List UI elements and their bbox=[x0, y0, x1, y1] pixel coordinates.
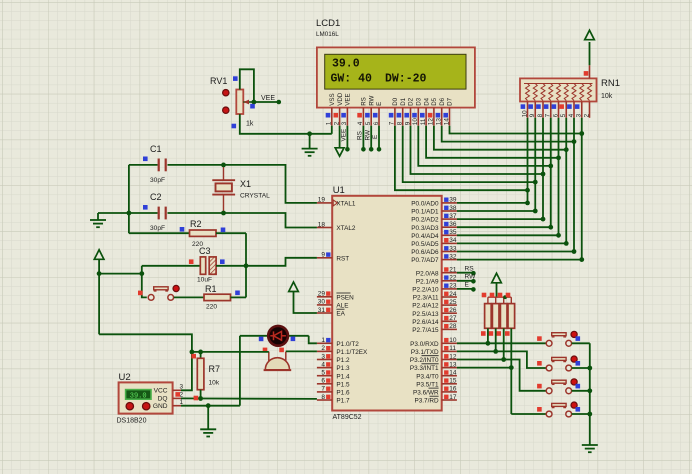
mcu U1 part number bbox=[333, 414, 362, 421]
svg-text:P2.1/A9: P2.1/A9 bbox=[416, 278, 439, 285]
svg-text:36: 36 bbox=[449, 221, 457, 228]
svg-text:30pF: 30pF bbox=[150, 225, 165, 232]
node R7 bottom junction bbox=[194, 396, 203, 401]
svg-text:3: 3 bbox=[576, 113, 583, 117]
LCD pin 13 D6 bbox=[436, 97, 446, 125]
wire P2.2 E bbox=[457, 282, 476, 292]
svg-text:34: 34 bbox=[449, 237, 457, 244]
wire VCC left vertical bbox=[98, 259, 100, 334]
U1 pin 21 P2.0/A8 bbox=[416, 267, 457, 278]
svg-text:220: 220 bbox=[206, 304, 217, 311]
svg-text:DS18B20: DS18B20 bbox=[117, 418, 147, 425]
LCD text line1 bbox=[332, 58, 360, 71]
svg-text:7: 7 bbox=[545, 113, 552, 117]
svg-text:RS: RS bbox=[361, 97, 368, 106]
svg-text:1: 1 bbox=[326, 121, 333, 125]
speaker LS1 bbox=[263, 348, 292, 371]
svg-text:VEE: VEE bbox=[345, 93, 352, 105]
wire wiper to VEE terminal bbox=[254, 101, 279, 103]
svg-text:8: 8 bbox=[537, 113, 544, 117]
U1 pin 17 P3.7/RD bbox=[414, 394, 456, 405]
svg-text:VEE: VEE bbox=[341, 129, 348, 142]
wire LCD D7 to net column bbox=[450, 126, 585, 136]
svg-text:P0.2/AD2: P0.2/AD2 bbox=[411, 217, 439, 224]
svg-text:8: 8 bbox=[321, 394, 325, 401]
push button key2 bbox=[537, 356, 580, 371]
U1 pin 9 RST bbox=[317, 252, 349, 263]
svg-text:P1.7: P1.7 bbox=[336, 398, 350, 405]
svg-text:1: 1 bbox=[321, 337, 325, 344]
svg-text:R7: R7 bbox=[209, 364, 221, 374]
pull-up resistor 3 bbox=[500, 304, 507, 329]
wire RN1 pin1 to power bbox=[589, 42, 591, 65]
wire LCD E down bbox=[377, 126, 382, 152]
U1 pin 15 P3.5/T1 bbox=[416, 378, 457, 389]
wire LCD VDD down bbox=[339, 126, 341, 148]
svg-text:R2: R2 bbox=[190, 219, 202, 229]
mcu U1 label bbox=[333, 185, 345, 196]
svg-text:C2: C2 bbox=[150, 192, 162, 202]
svg-text:P3.7/RD: P3.7/RD bbox=[414, 398, 439, 405]
LCD pin 14 D7 bbox=[443, 97, 453, 125]
svg-text:19: 19 bbox=[318, 197, 326, 204]
node RV1 wiper junction bbox=[252, 100, 257, 105]
wire P3.0 to key1 bbox=[457, 342, 546, 344]
wire VCC bottom run bbox=[99, 334, 192, 390]
svg-text:P0.6/AD6: P0.6/AD6 bbox=[411, 249, 439, 256]
resistor pack bottom squares bbox=[481, 331, 510, 336]
ground crystal net bbox=[90, 213, 106, 227]
RN1 pin 2 bbox=[584, 102, 591, 118]
U1 pin 3 P1.2 bbox=[317, 353, 350, 364]
svg-text:EA: EA bbox=[336, 311, 345, 318]
capacitor C2 bbox=[129, 205, 224, 219]
wire net column P0.4 down to U1 bbox=[457, 118, 561, 238]
svg-text:5: 5 bbox=[560, 113, 567, 117]
svg-text:8: 8 bbox=[397, 121, 404, 125]
U1 pin 5 P1.4 bbox=[317, 370, 350, 381]
capacitor C3 bbox=[142, 257, 246, 274]
svg-text:11: 11 bbox=[449, 345, 456, 352]
U1 pin 10 P3.0/RXD bbox=[410, 337, 457, 348]
svg-text:U2: U2 bbox=[119, 372, 131, 383]
U1 pin 35 P0.4/AD4 bbox=[411, 229, 457, 240]
U1 pin 30 ALE bbox=[317, 299, 349, 310]
wire pull-up 2 down bbox=[493, 328, 498, 354]
power terminal left VCC bbox=[94, 250, 104, 259]
wire LCD D3 to net column bbox=[418, 126, 553, 169]
wire LCD D0 to net column bbox=[395, 126, 530, 193]
wire key ground bus bbox=[589, 343, 591, 445]
node VCC-C3 junction bbox=[97, 271, 102, 276]
svg-text:ALE: ALE bbox=[336, 303, 348, 310]
svg-text:RW: RW bbox=[364, 129, 371, 140]
svg-text:14: 14 bbox=[449, 370, 457, 377]
svg-text:10k: 10k bbox=[601, 93, 613, 100]
wire net column P0.1 down to U1 bbox=[457, 118, 538, 214]
sensor U2 body bbox=[119, 382, 173, 413]
svg-text:6: 6 bbox=[553, 113, 560, 117]
push button key4 bbox=[537, 402, 580, 417]
svg-text:AT89C52: AT89C52 bbox=[333, 414, 362, 421]
power terminal VDD (down arrow) bbox=[335, 148, 344, 156]
U1 pin 34 P0.5/AD5 bbox=[411, 237, 457, 248]
U1 pin 36 P0.3/AD3 bbox=[411, 221, 457, 232]
wire DQ line to P1.7 bbox=[181, 397, 317, 400]
svg-text:15: 15 bbox=[449, 378, 457, 385]
resistor R1 bbox=[204, 291, 246, 301]
RN1 pin 6 bbox=[552, 102, 560, 118]
wire C1-C2 left vertical bbox=[128, 165, 130, 233]
U1 pin 16 P3.6/WR bbox=[413, 386, 457, 397]
svg-text:VCC: VCC bbox=[154, 388, 168, 395]
svg-text:D0: D0 bbox=[392, 97, 399, 105]
svg-text:6: 6 bbox=[373, 121, 380, 125]
U1 pin 29 PSEN bbox=[317, 291, 354, 302]
svg-text:3: 3 bbox=[341, 121, 348, 125]
wire LCD RW down bbox=[369, 126, 374, 152]
svg-text:39.0: 39.0 bbox=[332, 58, 360, 71]
resistor network RN1 label bbox=[601, 78, 620, 100]
U2 DQ state square bbox=[175, 392, 180, 397]
wire C1 net to XTAL1 bbox=[224, 165, 317, 203]
wire VCC branch to R7/speaker bbox=[192, 351, 269, 353]
node U2 gnd junction bbox=[206, 403, 211, 408]
svg-text:26: 26 bbox=[449, 307, 457, 314]
node bus j4 bbox=[587, 412, 592, 417]
U1 XTAL1 pin marker bbox=[333, 200, 337, 206]
svg-text:VEE: VEE bbox=[261, 95, 275, 102]
svg-text:P3.2/INT0: P3.2/INT0 bbox=[410, 357, 439, 364]
mcu U1 body bbox=[332, 196, 442, 411]
svg-text:X1: X1 bbox=[240, 179, 251, 189]
svg-text:P1.0/T2: P1.0/T2 bbox=[336, 341, 359, 348]
svg-text:7: 7 bbox=[389, 121, 396, 125]
wire RV1 bottom to VSS bbox=[240, 114, 332, 134]
svg-text:D3: D3 bbox=[416, 97, 423, 105]
ground key bus bbox=[582, 445, 598, 452]
node crystal bottom bbox=[221, 211, 226, 216]
svg-text:12: 12 bbox=[449, 353, 457, 360]
capacitor C3 label bbox=[197, 246, 212, 284]
wire P2.1 RW bbox=[457, 274, 476, 284]
svg-text:28: 28 bbox=[449, 323, 457, 330]
svg-text:23: 23 bbox=[449, 283, 457, 290]
wire LCD D2 to net column bbox=[411, 126, 546, 177]
U1 pin 23 P2.2/A10 bbox=[412, 283, 457, 294]
svg-text:D1: D1 bbox=[400, 97, 407, 105]
svg-text:LM016L: LM016L bbox=[316, 31, 339, 38]
pull-up resistor 2 bbox=[492, 304, 499, 329]
svg-text:P0.1/AD1: P0.1/AD1 bbox=[411, 209, 439, 216]
resistor R1 label bbox=[205, 284, 217, 311]
wire R1 up to RST net bbox=[245, 266, 247, 298]
svg-text:E: E bbox=[376, 102, 383, 106]
wire branch down to button bbox=[142, 274, 147, 298]
wire LCD D6 to net column bbox=[442, 126, 577, 144]
RN1 pin 1 stub bbox=[584, 65, 590, 78]
svg-text:2: 2 bbox=[321, 345, 325, 352]
wire key2 to bus bbox=[572, 367, 590, 369]
svg-text:11: 11 bbox=[420, 118, 427, 125]
svg-text:LCD1: LCD1 bbox=[316, 18, 340, 29]
wire speaker right to P1.1 bbox=[286, 350, 317, 352]
svg-text:9: 9 bbox=[404, 121, 411, 125]
U1 pin 6 P1.5 bbox=[317, 378, 350, 389]
wire net column P0.0 down to U1 bbox=[457, 118, 530, 206]
wire net column P0.6 down to U1 bbox=[457, 118, 576, 254]
svg-text:5: 5 bbox=[321, 370, 325, 377]
svg-text:2: 2 bbox=[333, 121, 340, 125]
LCD pin 6 E bbox=[373, 102, 383, 126]
svg-text:30: 30 bbox=[318, 299, 326, 306]
svg-text:9: 9 bbox=[529, 113, 536, 117]
wire C2 net to XTAL2 bbox=[224, 213, 317, 228]
wire LCD D5 to net column bbox=[434, 126, 569, 152]
svg-text:38: 38 bbox=[449, 205, 457, 212]
wire pull-up 4 down bbox=[509, 328, 514, 370]
svg-text:P0.0/AD0: P0.0/AD0 bbox=[411, 201, 439, 208]
svg-text:VDD: VDD bbox=[337, 92, 344, 106]
svg-text:CRYSTAL: CRYSTAL bbox=[240, 193, 270, 200]
LCD LCD1 screen bbox=[325, 54, 466, 89]
svg-text:31: 31 bbox=[318, 307, 326, 314]
node crystal top bbox=[221, 163, 226, 168]
svg-text:1k: 1k bbox=[246, 121, 254, 128]
wire P3.1 to key2 bbox=[457, 351, 546, 368]
LCD pin 9 D2 bbox=[404, 97, 414, 125]
LCD pin 4 RS bbox=[357, 97, 367, 126]
LCD pin 11 D4 bbox=[420, 97, 430, 125]
U1 pin 11 P3.1/TXD bbox=[411, 345, 457, 356]
label VEE rotated bbox=[341, 129, 348, 142]
LCD pin 5 RW bbox=[365, 95, 375, 125]
svg-text:29: 29 bbox=[318, 291, 326, 298]
svg-text:17: 17 bbox=[449, 394, 457, 401]
svg-text:XTAL2: XTAL2 bbox=[336, 225, 356, 232]
wire RST net to RST pin bbox=[246, 258, 317, 266]
push button reset bbox=[138, 285, 179, 300]
svg-text:4: 4 bbox=[568, 113, 575, 117]
svg-text:P2.6/A14: P2.6/A14 bbox=[412, 319, 439, 326]
node ground junction A bbox=[307, 131, 312, 136]
svg-text:2: 2 bbox=[584, 113, 591, 117]
svg-text:39.0: 39.0 bbox=[130, 393, 147, 401]
resistor R2 label bbox=[190, 219, 203, 248]
U1 pin 24 P2.3/A11 bbox=[413, 291, 457, 302]
svg-text:P1.4: P1.4 bbox=[336, 373, 350, 380]
svg-text:P3.5/T1: P3.5/T1 bbox=[416, 381, 439, 388]
label E rotated bbox=[372, 135, 379, 139]
U1 pin 22 P2.1/A9 bbox=[416, 275, 457, 286]
svg-text:24: 24 bbox=[449, 291, 457, 298]
svg-text:VSS: VSS bbox=[329, 93, 336, 105]
svg-text:P3.4/T0: P3.4/T0 bbox=[416, 373, 439, 380]
RN1 pin 9 bbox=[528, 102, 536, 118]
svg-text:P2.3/A11: P2.3/A11 bbox=[413, 295, 439, 302]
wire LCD RS down bbox=[361, 126, 366, 152]
RN1 internal resistors bbox=[524, 84, 593, 101]
svg-text:P0.3/AD3: P0.3/AD3 bbox=[411, 225, 439, 232]
svg-text:4: 4 bbox=[357, 121, 364, 125]
svg-text:U1: U1 bbox=[333, 185, 345, 196]
U1 pin 14 P3.4/T0 bbox=[416, 370, 457, 381]
power terminal EA bbox=[289, 282, 299, 292]
svg-text:C1: C1 bbox=[150, 144, 162, 154]
svg-text:P0.5/AD5: P0.5/AD5 bbox=[411, 241, 439, 248]
U1 pin 18 XTAL2 bbox=[317, 221, 356, 232]
svg-text:5: 5 bbox=[365, 121, 372, 125]
svg-text:GND: GND bbox=[153, 403, 168, 410]
resistor R7 bbox=[191, 352, 204, 399]
wire led to P1.0 bbox=[309, 336, 317, 344]
sensor U2 buttons bbox=[126, 403, 150, 410]
wire key3 to bus bbox=[572, 390, 590, 392]
svg-text:P2.7/A15: P2.7/A15 bbox=[412, 327, 439, 334]
U2 pin 3 VCC bbox=[154, 384, 184, 395]
svg-text:XTAL1: XTAL1 bbox=[336, 201, 356, 208]
svg-text:14: 14 bbox=[443, 118, 450, 126]
U1 pin 2 P1.1/T2EX bbox=[317, 345, 368, 356]
U2 pin 1 GND bbox=[153, 399, 184, 410]
svg-text:D2: D2 bbox=[408, 97, 415, 105]
svg-text:10uF: 10uF bbox=[197, 277, 212, 284]
node C2 left junction bbox=[126, 211, 131, 216]
crystal X1 label bbox=[240, 179, 270, 200]
label RS rotated bbox=[357, 131, 364, 140]
svg-text:P2.0/A8: P2.0/A8 bbox=[416, 270, 439, 277]
svg-text:13: 13 bbox=[436, 118, 443, 126]
svg-text:RW: RW bbox=[368, 95, 375, 105]
svg-text:RST: RST bbox=[336, 255, 349, 262]
U1 pin 27 P2.6/A14 bbox=[412, 315, 457, 326]
svg-text:7: 7 bbox=[321, 386, 325, 393]
terminal VEE bbox=[261, 95, 281, 104]
wire P3.2 to key3 bbox=[457, 360, 546, 391]
svg-text:D6: D6 bbox=[439, 97, 446, 105]
U1 pin 38 P0.1/AD1 bbox=[411, 205, 457, 216]
svg-text:6: 6 bbox=[321, 378, 325, 385]
LCD pin 8 D1 bbox=[397, 97, 407, 125]
node RST net junction bbox=[244, 263, 249, 268]
svg-text:3: 3 bbox=[321, 353, 325, 360]
svg-text:RV1: RV1 bbox=[210, 76, 227, 86]
U1 pin 1 P1.0/T2 bbox=[317, 337, 359, 348]
svg-text:R1: R1 bbox=[205, 284, 217, 294]
svg-text:27: 27 bbox=[449, 315, 457, 322]
svg-text:D7: D7 bbox=[447, 97, 454, 105]
svg-text:30pF: 30pF bbox=[150, 177, 165, 184]
svg-text:C3: C3 bbox=[199, 246, 211, 256]
svg-text:E: E bbox=[465, 282, 470, 289]
svg-text:P3.3/INT1: P3.3/INT1 bbox=[410, 365, 439, 372]
U1 pin 32 P0.7/AD7 bbox=[411, 253, 457, 264]
power terminal resistor pack bbox=[492, 273, 502, 297]
wire branch up to C3 bbox=[141, 266, 143, 274]
capacitor C2 label bbox=[150, 192, 165, 232]
svg-text:10k: 10k bbox=[209, 380, 220, 387]
RN1 pin 10 bbox=[521, 102, 529, 118]
pot RV1 interactive buttons bbox=[223, 90, 229, 114]
LCD pin 10 D3 bbox=[412, 97, 422, 125]
svg-text:RN1: RN1 bbox=[601, 78, 620, 89]
svg-text:22: 22 bbox=[449, 275, 457, 282]
svg-text:RW: RW bbox=[465, 274, 477, 281]
svg-text:P1.1/T2EX: P1.1/T2EX bbox=[336, 349, 368, 356]
wire GND line bbox=[181, 405, 240, 407]
pull-up resistor 4 bbox=[508, 304, 515, 329]
wire led left down to gnd bbox=[239, 336, 241, 406]
svg-text:P1.2: P1.2 bbox=[336, 357, 350, 364]
wire C2 to ground spur bbox=[98, 212, 129, 214]
U1 pin 8 P1.7 bbox=[317, 394, 350, 405]
wire key1 to bus bbox=[572, 342, 590, 344]
wire button to R1 bbox=[174, 296, 204, 298]
wire VCC to C3/button branch bbox=[99, 273, 142, 275]
U1 pin 13 P3.3/INT1 bbox=[410, 361, 457, 372]
svg-text:18: 18 bbox=[318, 221, 326, 228]
resistor R2 bbox=[129, 227, 246, 236]
LCD pin 7 D0 bbox=[389, 97, 399, 125]
svg-text:33: 33 bbox=[449, 245, 457, 252]
svg-text:10: 10 bbox=[522, 110, 529, 118]
LCD pin 3 VEE bbox=[341, 93, 351, 125]
RN1 pin 8 bbox=[536, 102, 544, 118]
led D1 bbox=[240, 326, 309, 346]
sensor U2 part number bbox=[117, 418, 147, 425]
wire net column P0.2 down to U1 bbox=[457, 118, 545, 222]
svg-text:P3.1/TXD: P3.1/TXD bbox=[411, 349, 439, 356]
svg-text:RS: RS bbox=[357, 131, 364, 140]
LCD pin 12 D5 bbox=[428, 97, 438, 125]
svg-text:37: 37 bbox=[449, 213, 457, 220]
RN1 pin 4 bbox=[567, 102, 575, 118]
svg-text:21: 21 bbox=[449, 267, 457, 274]
svg-text:P2.5/A13: P2.5/A13 bbox=[412, 311, 439, 318]
svg-text:P3.0/RXD: P3.0/RXD bbox=[410, 341, 439, 348]
U1 pin 28 P2.7/A15 bbox=[412, 323, 457, 334]
svg-text:12: 12 bbox=[428, 118, 435, 126]
wire LCD D1 to net column bbox=[403, 126, 538, 185]
svg-text:E: E bbox=[372, 135, 379, 139]
svg-text:D5: D5 bbox=[431, 97, 438, 105]
resistor pack rail bbox=[482, 293, 512, 304]
wire R2 right down to RST net bbox=[245, 233, 247, 266]
power terminal above RN1 bbox=[585, 30, 595, 40]
pot RV1 label bbox=[210, 76, 254, 128]
svg-text:DW:-20: DW:-20 bbox=[385, 73, 427, 86]
svg-text:DQ: DQ bbox=[158, 396, 168, 403]
wire pull-up 3 down bbox=[501, 328, 506, 362]
svg-text:32: 32 bbox=[449, 253, 457, 260]
RN1 pin 3 bbox=[575, 102, 583, 118]
svg-text:RS: RS bbox=[465, 266, 475, 273]
svg-text:P1.3: P1.3 bbox=[336, 365, 350, 372]
wire P3.3 to key4 bbox=[457, 368, 546, 414]
push button key3 bbox=[537, 379, 580, 394]
resistor R7 label bbox=[209, 364, 221, 387]
label RW rotated bbox=[364, 129, 371, 140]
LCD LCD1 label bbox=[316, 18, 340, 38]
wire LCD D4 to net column bbox=[426, 126, 561, 161]
svg-text:4: 4 bbox=[321, 361, 325, 368]
svg-text:P2.4/A12: P2.4/A12 bbox=[412, 303, 439, 310]
svg-text:13: 13 bbox=[449, 361, 457, 368]
U1 pin 31 EA bbox=[317, 307, 346, 318]
RN1 pin 7 bbox=[544, 102, 552, 118]
svg-text:P3.6/WR: P3.6/WR bbox=[413, 390, 439, 397]
svg-text:P2.2/A10: P2.2/A10 bbox=[412, 287, 439, 294]
